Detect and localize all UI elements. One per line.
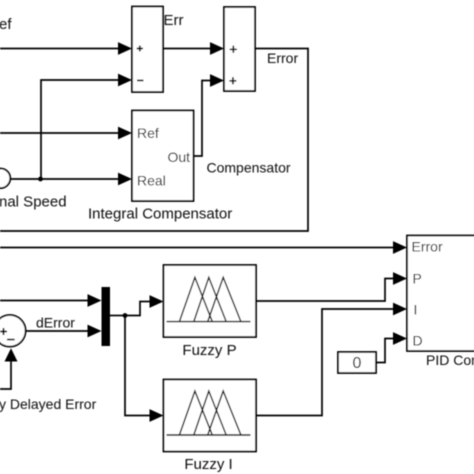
arrowhead into Mux bottom xyxy=(88,325,102,338)
arrowhead into Sum1 plus xyxy=(118,42,132,55)
wire Out of Integral Compensator to Sum2 xyxy=(194,81,214,157)
svg-text:PID Controller: PID Controller xyxy=(426,352,474,368)
wire Final Speed to Real port xyxy=(11,178,122,180)
membership triangles Fuzzy I xyxy=(167,391,251,435)
port label Out xyxy=(168,149,191,165)
sign minus dError sum xyxy=(7,339,15,341)
sign plus dError sum xyxy=(0,328,7,335)
block Integral Compensator xyxy=(132,111,194,202)
membership triangles Fuzzy P xyxy=(167,277,251,321)
svg-text:Fuzzy I: Fuzzy I xyxy=(184,456,232,473)
junction dot Mux output xyxy=(123,313,128,318)
svg-text:Ref: Ref xyxy=(137,125,159,141)
wire Ref to Sum1 plus xyxy=(0,48,121,50)
sum block Sum2 xyxy=(224,7,255,91)
block Constant 0 xyxy=(338,352,376,373)
arrowhead into PID Error port xyxy=(393,241,407,254)
port label Ref xyxy=(137,125,159,141)
block Fuzzy I xyxy=(164,380,257,452)
arrowhead into Ref port xyxy=(118,127,132,140)
label Fuzzy I xyxy=(184,456,232,473)
label Err xyxy=(164,12,184,29)
port label P xyxy=(413,271,422,287)
svg-text:y Delayed Error: y Delayed Error xyxy=(0,396,97,412)
label ef (cut Ref) xyxy=(0,16,12,33)
wire Mux out to junction xyxy=(110,315,125,317)
block Fuzzy P xyxy=(164,265,257,337)
svg-text:0: 0 xyxy=(353,355,362,372)
wire junction to Fuzzy I input xyxy=(125,316,152,416)
wire Final Speed branch vertical to Sum1 minus xyxy=(41,80,121,179)
svg-text:ef: ef xyxy=(0,16,12,33)
svg-text:Error: Error xyxy=(267,50,298,66)
wire Sum2 Error feedback loop xyxy=(0,49,308,232)
arrowhead into Real port xyxy=(118,173,132,186)
label Integral Compensator xyxy=(88,206,232,223)
sum circle dError xyxy=(0,315,26,347)
svg-text:Fuzzy P: Fuzzy P xyxy=(182,342,236,359)
Mux block xyxy=(102,287,111,346)
sum block Sum1 xyxy=(132,7,163,93)
sign plus Sum2 top xyxy=(230,46,237,53)
arrowhead up into dError sum xyxy=(5,348,18,361)
wire Fuzzy I out to PID I input xyxy=(256,309,395,416)
svg-text:I: I xyxy=(414,302,418,318)
sign minus Sum1 xyxy=(137,79,143,81)
block PID Controller xyxy=(407,236,474,352)
svg-text:Err: Err xyxy=(164,12,184,29)
port label Real xyxy=(137,173,166,189)
wire Sum1 out Err to Sum2 xyxy=(163,48,213,50)
wire Fuzzy Delayed Error to sum xyxy=(0,360,11,389)
svg-text:Integral Compensator: Integral Compensator xyxy=(88,206,232,223)
svg-text:Compensator: Compensator xyxy=(207,160,291,176)
label y Delayed Error (cut Fuzzy Delayed Error) xyxy=(0,396,97,412)
arrowhead into PID P port xyxy=(393,272,407,285)
arrowhead into Sum2 first plus xyxy=(210,42,224,55)
arrowhead into Sum1 minus xyxy=(118,74,132,87)
label nal Speed (cut Final Speed) xyxy=(0,194,67,211)
wire Constant 0 to PID D input xyxy=(376,339,395,363)
arrowhead into Sum2 second plus xyxy=(210,74,224,87)
arrowhead into Mux top xyxy=(88,294,102,307)
sign plus Sum2 bottom xyxy=(229,77,236,84)
label Compensator xyxy=(207,160,291,176)
arrowhead into Fuzzy P xyxy=(150,295,164,308)
label Fuzzy P xyxy=(182,342,236,359)
wire Ref input to Integral Compensator xyxy=(0,132,121,134)
wire Error to PID Controller xyxy=(0,247,395,249)
port label Error on PID xyxy=(412,239,443,255)
junction dot Final Speed xyxy=(38,177,43,182)
svg-text:nal Speed: nal Speed xyxy=(0,194,67,211)
wire junction to Fuzzy P input xyxy=(125,302,152,316)
wire dError sum to Mux bottom input xyxy=(26,330,91,332)
svg-text:Error: Error xyxy=(412,239,443,255)
value label 0 xyxy=(353,355,362,372)
input port oval Final Speed xyxy=(0,169,10,189)
wire Fuzzy P out to PID P input xyxy=(256,279,395,302)
arrowhead into PID D port xyxy=(393,332,407,345)
sign plus Sum1 xyxy=(137,46,143,52)
arrowhead into Fuzzy I xyxy=(150,409,164,422)
svg-text:D: D xyxy=(413,333,423,349)
label Error signal xyxy=(267,50,298,66)
label PID Controller (cut) xyxy=(426,352,474,368)
wire Error to Mux top input xyxy=(0,300,90,302)
arrowhead into PID I port xyxy=(393,303,407,316)
svg-text:Out: Out xyxy=(168,149,191,165)
port label D xyxy=(413,333,423,349)
svg-text:dError: dError xyxy=(36,315,75,331)
svg-text:P: P xyxy=(413,271,422,287)
port label I xyxy=(414,302,418,318)
label dError xyxy=(36,315,75,331)
svg-text:Real: Real xyxy=(137,173,166,189)
